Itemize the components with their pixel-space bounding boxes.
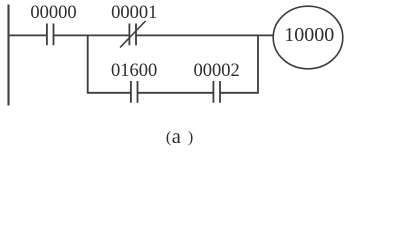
wire: rail to contact 00000	[8, 34, 47, 36]
slash of contact 00001	[120, 21, 146, 48]
wire: contact 00001 to coil	[136, 34, 273, 36]
left power rail	[7, 5, 9, 106]
wire: contact 01600 to contact 00002	[138, 92, 214, 94]
svg-text:a: a	[172, 126, 181, 148]
contact 00000	[47, 24, 54, 46]
wire: contact 00002 to branch right vertical	[220, 92, 259, 94]
wire: branch right vertical	[257, 35, 259, 93]
wire: branch left vertical	[87, 35, 89, 93]
wire: contact 00000 to contact 00001	[54, 34, 130, 36]
svg-text:): )	[188, 129, 193, 146]
wire: branch left to contact 01600	[87, 92, 131, 94]
coil 10000 (output circle)	[273, 6, 343, 69]
contact 00002	[213, 81, 220, 103]
svg-text:00000: 00000	[30, 3, 76, 23]
contact 00001 (normally closed)	[129, 24, 136, 46]
contact 01600	[131, 81, 138, 103]
svg-text:01600: 01600	[111, 61, 157, 81]
svg-text:00001: 00001	[111, 3, 157, 23]
svg-text:00002: 00002	[193, 61, 239, 81]
svg-text:10000: 10000	[284, 24, 334, 46]
svg-text:(: (	[166, 129, 171, 146]
